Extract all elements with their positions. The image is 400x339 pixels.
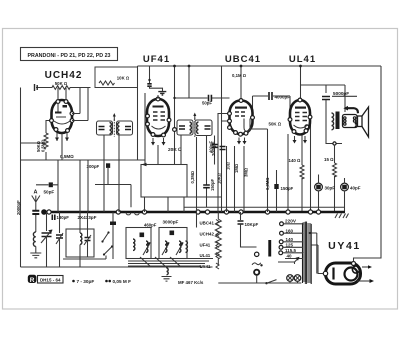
- svg-text:10K Ω: 10K Ω: [117, 76, 130, 81]
- svg-text:UL41: UL41: [200, 253, 211, 258]
- svg-text:180pF: 180pF: [57, 215, 70, 220]
- svg-text:10KΩ: 10KΩ: [217, 173, 222, 184]
- svg-text:220V: 220V: [285, 218, 297, 223]
- svg-text:0,05 M F: 0,05 M F: [113, 279, 132, 284]
- svg-text:A: A: [34, 190, 38, 196]
- svg-text:50pF: 50pF: [44, 190, 55, 195]
- svg-text:0,3MΩ: 0,3MΩ: [265, 177, 270, 190]
- svg-text:50pF: 50pF: [202, 100, 212, 105]
- svg-text:PRANDONI - PD 21, PD 22, PD 23: PRANDONI - PD 21, PD 22, PD 23: [27, 53, 110, 59]
- svg-text:150pF: 150pF: [210, 178, 215, 191]
- svg-text:50K Ω: 50K Ω: [269, 122, 282, 127]
- svg-text:R: R: [30, 277, 35, 284]
- svg-text:7 - 30pF: 7 - 30pF: [77, 279, 95, 284]
- svg-text:UCH42: UCH42: [200, 232, 215, 237]
- svg-text:3MΩ: 3MΩ: [243, 168, 248, 177]
- svg-text:MF 467 Kc/s: MF 467 Kc/s: [178, 280, 204, 285]
- svg-text:20K Ω: 20K Ω: [168, 147, 182, 153]
- svg-text:UF41: UF41: [143, 54, 170, 65]
- svg-text:DH15 - 64: DH15 - 64: [40, 277, 61, 282]
- svg-text:4000pF: 4000pF: [275, 95, 291, 100]
- svg-text:UBC41: UBC41: [225, 54, 261, 65]
- svg-text:2000pF: 2000pF: [211, 141, 216, 156]
- svg-text:460pF: 460pF: [144, 223, 157, 228]
- svg-text:1MΩ: 1MΩ: [234, 164, 239, 173]
- svg-text:0,1M Ω: 0,1M Ω: [232, 73, 247, 78]
- svg-text:115,5: 115,5: [285, 248, 297, 253]
- svg-text:UY41: UY41: [328, 240, 361, 252]
- svg-text:40pF: 40pF: [350, 186, 361, 191]
- svg-text:15 Ω: 15 Ω: [324, 157, 334, 162]
- svg-text:140 Ω: 140 Ω: [289, 158, 302, 163]
- svg-text:0,3MΩ: 0,3MΩ: [190, 171, 195, 184]
- svg-text:2000pF: 2000pF: [16, 200, 21, 215]
- svg-text:160: 160: [286, 228, 294, 233]
- svg-text:10Ω: 10Ω: [226, 162, 231, 170]
- svg-text:140: 140: [286, 237, 294, 242]
- svg-text:10KpF: 10KpF: [245, 222, 259, 227]
- svg-text:125: 125: [286, 243, 294, 248]
- svg-text:40: 40: [287, 254, 293, 259]
- svg-text:UY41: UY41: [200, 264, 212, 269]
- svg-text:3000pF: 3000pF: [163, 220, 179, 225]
- svg-text:UF41: UF41: [200, 243, 211, 248]
- svg-text:UL41: UL41: [289, 54, 316, 65]
- svg-text:150pF: 150pF: [281, 186, 294, 191]
- svg-text:5000pF: 5000pF: [333, 91, 349, 96]
- svg-text:0,5MΩ: 0,5MΩ: [40, 139, 45, 152]
- svg-text:30pF: 30pF: [325, 186, 336, 191]
- svg-text:UCH42: UCH42: [45, 70, 83, 81]
- svg-text:50K Ω: 50K Ω: [55, 81, 68, 86]
- svg-text:UBC41: UBC41: [200, 221, 215, 226]
